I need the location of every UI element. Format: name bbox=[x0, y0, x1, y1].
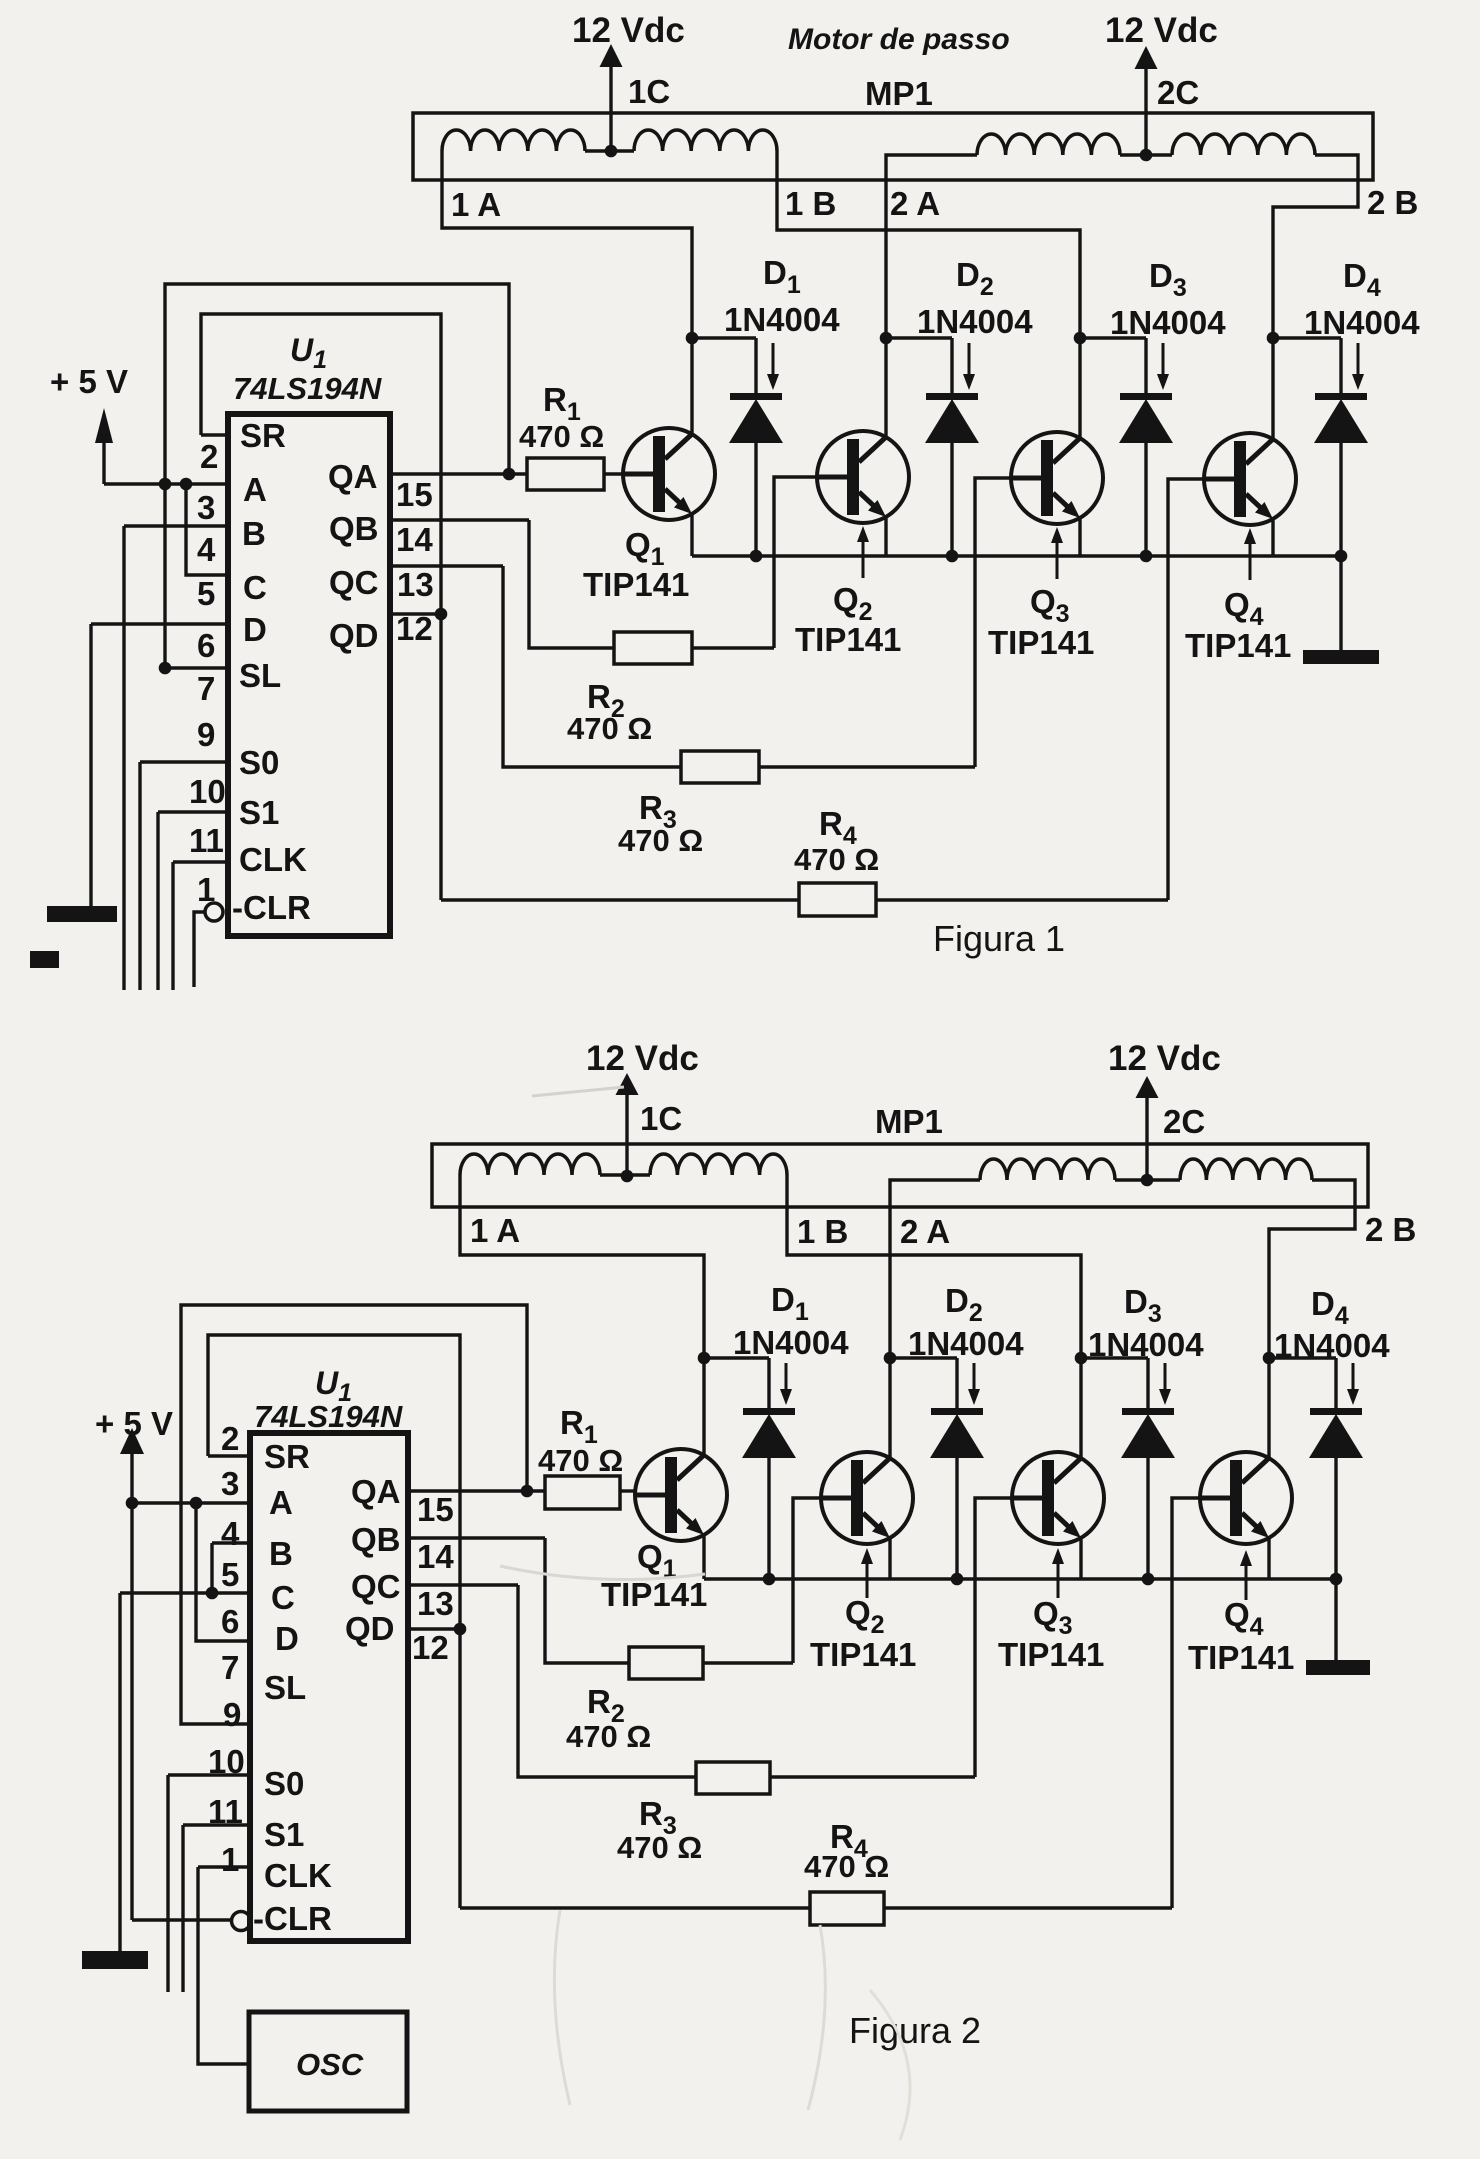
svg-text:1N4004: 1N4004 bbox=[733, 1324, 849, 1361]
svg-text:2 B: 2 B bbox=[1367, 184, 1418, 221]
svg-text:2 A: 2 A bbox=[890, 185, 940, 222]
svg-text:74LS194N: 74LS194N bbox=[254, 1399, 403, 1434]
svg-text:SL: SL bbox=[239, 657, 281, 694]
svg-text:QC: QC bbox=[329, 564, 379, 601]
svg-text:1N4004: 1N4004 bbox=[1110, 304, 1226, 341]
svg-text:1 B: 1 B bbox=[797, 1213, 848, 1250]
svg-text:14: 14 bbox=[396, 521, 433, 558]
svg-text:6: 6 bbox=[197, 627, 215, 664]
svg-text:1N4004: 1N4004 bbox=[1274, 1327, 1390, 1364]
svg-text:12 Vdc: 12 Vdc bbox=[586, 1039, 699, 1078]
svg-text:TIP141: TIP141 bbox=[601, 1576, 707, 1613]
svg-text:7: 7 bbox=[197, 670, 215, 707]
svg-text:TIP141: TIP141 bbox=[810, 1636, 916, 1673]
svg-text:QC: QC bbox=[351, 1568, 401, 1605]
svg-text:CLK: CLK bbox=[264, 1857, 332, 1894]
svg-text:15: 15 bbox=[417, 1491, 454, 1528]
svg-text:11: 11 bbox=[189, 822, 224, 859]
svg-text:470 Ω: 470 Ω bbox=[804, 1849, 889, 1884]
svg-text:TIP141: TIP141 bbox=[795, 621, 901, 658]
svg-text:1N4004: 1N4004 bbox=[1088, 1326, 1204, 1363]
svg-text:-CLR: -CLR bbox=[232, 889, 311, 926]
svg-text:2: 2 bbox=[221, 1420, 239, 1457]
svg-text:A: A bbox=[269, 1484, 293, 1521]
svg-text:S1: S1 bbox=[264, 1816, 304, 1853]
svg-text:MP1: MP1 bbox=[875, 1103, 943, 1140]
svg-text:SL: SL bbox=[264, 1669, 306, 1706]
svg-text:-CLR: -CLR bbox=[253, 1900, 332, 1937]
svg-text:TIP141: TIP141 bbox=[998, 1636, 1104, 1673]
svg-text:470 Ω: 470 Ω bbox=[617, 1830, 702, 1865]
svg-text:4: 4 bbox=[221, 1515, 240, 1552]
svg-text:470 Ω: 470 Ω bbox=[519, 419, 604, 454]
svg-text:TIP141: TIP141 bbox=[1188, 1639, 1294, 1676]
svg-text:A: A bbox=[243, 471, 267, 508]
svg-text:11: 11 bbox=[208, 1793, 243, 1830]
svg-text:1: 1 bbox=[197, 871, 215, 908]
svg-text:QA: QA bbox=[328, 458, 378, 495]
svg-text:SR: SR bbox=[264, 1438, 310, 1475]
svg-text:S0: S0 bbox=[239, 744, 279, 781]
svg-text:Figura 2: Figura 2 bbox=[849, 2010, 981, 2051]
svg-text:1 A: 1 A bbox=[470, 1212, 520, 1249]
svg-text:1C: 1C bbox=[628, 73, 670, 110]
svg-text:QA: QA bbox=[351, 1473, 401, 1510]
svg-text:C: C bbox=[271, 1579, 295, 1616]
svg-text:10: 10 bbox=[189, 773, 226, 810]
svg-text:9: 9 bbox=[197, 716, 215, 753]
svg-text:6: 6 bbox=[221, 1603, 239, 1640]
svg-text:74LS194N: 74LS194N bbox=[233, 371, 382, 406]
svg-text:12: 12 bbox=[412, 1629, 449, 1666]
svg-text:14: 14 bbox=[417, 1538, 454, 1575]
svg-text:2C: 2C bbox=[1163, 1103, 1205, 1140]
svg-text:7: 7 bbox=[221, 1649, 239, 1686]
svg-text:12 Vdc: 12 Vdc bbox=[572, 11, 685, 50]
svg-text:12: 12 bbox=[396, 610, 433, 647]
svg-text:MP1: MP1 bbox=[865, 75, 933, 112]
svg-text:C: C bbox=[243, 569, 267, 606]
svg-text:TIP141: TIP141 bbox=[583, 566, 689, 603]
svg-text:Motor de passo: Motor de passo bbox=[788, 23, 1010, 56]
svg-text:5: 5 bbox=[221, 1556, 239, 1593]
svg-text:1N4004: 1N4004 bbox=[908, 1325, 1024, 1362]
svg-text:3: 3 bbox=[221, 1465, 239, 1502]
svg-text:Figura 1: Figura 1 bbox=[933, 918, 1065, 959]
svg-text:1N4004: 1N4004 bbox=[1304, 304, 1420, 341]
svg-text:B: B bbox=[242, 515, 266, 552]
svg-text:CLK: CLK bbox=[239, 841, 307, 878]
svg-text:2C: 2C bbox=[1157, 74, 1199, 111]
svg-text:470 Ω: 470 Ω bbox=[566, 1719, 651, 1754]
svg-text:1N4004: 1N4004 bbox=[917, 303, 1033, 340]
svg-text:470 Ω: 470 Ω bbox=[618, 823, 703, 858]
svg-text:1 B: 1 B bbox=[785, 185, 836, 222]
svg-text:QB: QB bbox=[329, 510, 379, 547]
svg-text:12 Vdc: 12 Vdc bbox=[1108, 1039, 1221, 1078]
svg-text:TIP141: TIP141 bbox=[1185, 627, 1291, 664]
svg-text:OSC: OSC bbox=[296, 2047, 364, 2082]
svg-text:QD: QD bbox=[329, 617, 379, 654]
svg-text:2: 2 bbox=[200, 438, 218, 475]
svg-text:1N4004: 1N4004 bbox=[724, 301, 840, 338]
svg-text:1: 1 bbox=[221, 1841, 239, 1878]
svg-text:5: 5 bbox=[197, 575, 215, 612]
svg-text:15: 15 bbox=[396, 476, 433, 513]
svg-text:TIP141: TIP141 bbox=[988, 624, 1094, 661]
svg-text:S0: S0 bbox=[264, 1765, 304, 1802]
svg-text:4: 4 bbox=[197, 531, 216, 568]
svg-text:9: 9 bbox=[223, 1696, 241, 1733]
svg-text:QB: QB bbox=[351, 1521, 401, 1558]
svg-text:+ 5 V: + 5 V bbox=[95, 1405, 173, 1442]
svg-text:B: B bbox=[269, 1535, 293, 1572]
svg-text:470 Ω: 470 Ω bbox=[794, 842, 879, 877]
svg-text:QD: QD bbox=[345, 1610, 395, 1647]
svg-text:13: 13 bbox=[397, 566, 434, 603]
svg-text:12 Vdc: 12 Vdc bbox=[1105, 11, 1218, 50]
svg-text:1C: 1C bbox=[640, 1100, 682, 1137]
svg-text:+ 5 V: + 5 V bbox=[50, 363, 128, 400]
svg-text:2 B: 2 B bbox=[1365, 1211, 1416, 1248]
svg-text:3: 3 bbox=[197, 489, 215, 526]
svg-text:470 Ω: 470 Ω bbox=[567, 711, 652, 746]
svg-text:470 Ω: 470 Ω bbox=[538, 1443, 623, 1478]
svg-text:13: 13 bbox=[417, 1585, 454, 1622]
svg-text:10: 10 bbox=[208, 1743, 245, 1780]
svg-text:S1: S1 bbox=[239, 794, 279, 831]
svg-text:SR: SR bbox=[240, 417, 286, 454]
svg-text:D: D bbox=[243, 611, 267, 648]
svg-text:2 A: 2 A bbox=[900, 1213, 950, 1250]
svg-text:D: D bbox=[275, 1620, 299, 1657]
svg-text:1 A: 1 A bbox=[451, 186, 501, 223]
